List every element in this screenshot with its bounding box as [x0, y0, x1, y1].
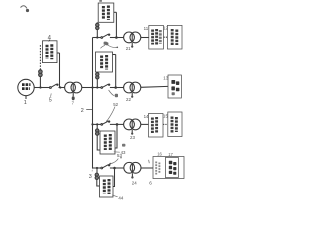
label 42 (above box B): [105, 42, 108, 45]
label 2 tick: [86, 109, 92, 111]
label 44 leader: [112, 195, 117, 197]
transformer TA winding 1: [124, 32, 135, 43]
transformer TC winding 2: [130, 119, 141, 130]
wire: transformer TA to load box A1: [141, 37, 149, 39]
svg-text:24: 24: [132, 181, 137, 186]
wire: breaker BB to box B: [96, 71, 98, 74]
transformer TC core line: [131, 120, 133, 128]
label 5 tick: [50, 93, 53, 96]
wire: source to switch S0: [34, 87, 50, 89]
label 4 tick: [49, 40, 50, 42]
transformer TA winding 2: [130, 32, 141, 43]
wire: breaker B0 to box L (dashed): [39, 45, 41, 70]
transformer TA tap arrowhead: [131, 46, 133, 48]
transformer TD winding 2: [130, 162, 141, 173]
switch SC contact b: [108, 120, 110, 122]
switch SC contact a: [101, 124, 103, 126]
leader curve for label 42: [101, 45, 106, 48]
transformer TA core line: [131, 33, 133, 41]
node JB1: [96, 86, 98, 88]
control box C: [100, 131, 115, 154]
transformer TD core line: [131, 164, 133, 172]
switch SC blade: [103, 121, 109, 124]
label 43 (right of box C): [122, 144, 125, 147]
switch SB blade: [103, 84, 109, 87]
control box B: [96, 52, 113, 72]
wire: feeder D from bus corner: [93, 167, 102, 169]
load box C1 text: [152, 117, 156, 134]
svg-text:44: 44: [118, 195, 123, 200]
svg-text:53: 53: [117, 153, 122, 158]
wire: stub to box L right edge: [57, 52, 60, 54]
label 51a (below switch SA): [104, 42, 107, 45]
load box C2: [168, 112, 182, 137]
breaker BD: [95, 173, 98, 176]
label 43b leader: [114, 151, 120, 153]
box L text: [47, 44, 52, 59]
reference mark 100 (top-left curved leader): [21, 6, 30, 12]
node JC1: [96, 123, 98, 125]
node JD2: [113, 167, 116, 170]
svg-text:7: 7: [72, 100, 75, 105]
switch S0 contact a: [50, 87, 52, 89]
switch SB contact b: [108, 84, 110, 86]
wire: breaker BD down and stub to box D: [97, 180, 100, 187]
label 9 tick (left of load group D): [148, 160, 151, 163]
box C text: [105, 134, 110, 151]
transformer TD tap lead: [131, 173, 133, 176]
load group D left text: [156, 162, 159, 175]
control box L: [43, 41, 58, 63]
switch SA contact b: [108, 34, 110, 36]
svg-text:11: 11: [144, 26, 149, 31]
switch SB contact a: [101, 87, 103, 89]
svg-text:6: 6: [149, 180, 152, 185]
wire: JB1 up to breaker BB: [96, 79, 98, 88]
load box B1 text: [171, 80, 179, 95]
breaker BC: [96, 129, 99, 132]
leader curve for label 51a: [107, 44, 117, 47]
wire: switch SB to transformer TB: [110, 87, 124, 89]
control box A: [98, 3, 114, 22]
node JB2: [114, 86, 117, 89]
switch SA contact a: [101, 37, 103, 39]
load box C1: [149, 114, 164, 138]
transformer T0 tap arrowhead: [72, 96, 75, 100]
transformer TB core line: [131, 84, 133, 92]
switch SA blade: [103, 34, 109, 37]
switch S0 blade: [51, 84, 57, 87]
wire: switch SD to transformer TD: [110, 167, 124, 169]
svg-text:1: 1: [24, 100, 27, 106]
load box A1 text: [153, 29, 161, 45]
node JC2: [116, 123, 119, 126]
transformer TB tap lead: [131, 93, 133, 96]
wire: dashed link box C1 to box C2: [163, 123, 168, 125]
switch S0 contact b: [56, 84, 58, 86]
transformer TC tap arrowhead: [131, 133, 133, 135]
load group D outer box: [153, 157, 184, 179]
load box D1 text: [169, 161, 177, 175]
node JA2: [115, 36, 118, 39]
load box D1 (inner): [165, 158, 178, 178]
wire: transformer T0 to bus: [82, 87, 93, 89]
transformer TB winding 1: [124, 82, 135, 93]
svg-text:21: 21: [126, 46, 131, 51]
transformer TA tap lead: [131, 43, 133, 46]
leader curve for label 53: [111, 159, 119, 164]
wire: breaker BA to box A: [96, 21, 98, 24]
wire: dashed link box A1 to box A2: [164, 36, 168, 38]
wire: tap J1 up to breaker B0: [39, 77, 41, 88]
wire: transformer TC to load box C1: [141, 123, 149, 125]
wire: box B right stub to bypass: [113, 54, 116, 56]
label 3 tick: [91, 168, 94, 172]
wire: box A right stub to bypass: [114, 11, 117, 13]
transformer T0 winding 1: [65, 82, 76, 93]
control box D: [100, 176, 114, 197]
node JB0 (bus crossing): [91, 86, 93, 88]
switch SD contact a: [101, 167, 103, 169]
wire: breaker BC down and stub to box C: [97, 135, 100, 150]
wire: JA1 up to breaker BA: [96, 30, 98, 38]
wire: bypass down to feeder B: [115, 55, 117, 88]
transformer TB winding 2: [130, 82, 141, 93]
box B text: [102, 55, 107, 70]
transformer TB tap arrowhead: [131, 96, 133, 98]
svg-text:22: 22: [126, 97, 131, 102]
wire: J2 to transformer T0: [59, 87, 65, 89]
wire: switch SA to transformer TA: [110, 37, 124, 39]
power source G1 (utility grid circle): [18, 79, 34, 95]
svg-text:2: 2: [81, 108, 84, 114]
wire: feeder A from bus: [93, 37, 102, 39]
transformer TD tap arrowhead: [131, 176, 133, 178]
load box C2 text: [172, 117, 176, 133]
wire: JD1 down to breaker BD: [96, 168, 98, 173]
label 1 leader: [25, 96, 27, 99]
wire: transformer TB to load box B1: [141, 85, 168, 88]
svg-text:17: 17: [168, 152, 173, 157]
svg-text:3: 3: [89, 174, 92, 180]
svg-text:52: 52: [113, 102, 118, 107]
breaker BB: [96, 76, 99, 79]
switch SD contact b: [108, 164, 110, 166]
wire: bypass from feeder C down to box C right stub: [115, 124, 117, 148]
svg-text:5: 5: [49, 98, 52, 104]
box A text: [103, 6, 108, 21]
breaker BA: [96, 26, 99, 29]
node J1 (tap to box L): [39, 86, 41, 88]
label 41 (above box A): [99, 0, 102, 2]
load box A2: [167, 25, 182, 49]
wire: feeder C from bus: [93, 123, 102, 125]
transformer TD winding 1: [124, 162, 135, 173]
transformer T0 winding 2: [71, 82, 82, 93]
wire: J2 up to box L right stub: [59, 53, 61, 88]
breaker B0 (two-circle disconnector): [39, 73, 43, 77]
leader curve for label 52: [107, 107, 115, 121]
transformer T0 core line: [72, 84, 74, 92]
wire: feeder B from bus: [93, 87, 102, 89]
load box A1: [149, 26, 164, 50]
box D text: [104, 179, 109, 194]
svg-text:23: 23: [130, 135, 135, 140]
wire: JC1 down to breaker BC: [96, 124, 98, 128]
load box A2 text: [172, 29, 177, 45]
transformer TC tap lead: [131, 130, 133, 133]
transformer T0 tap lead: [72, 93, 74, 97]
load box B1: [168, 75, 181, 98]
svg-text:16: 16: [157, 152, 162, 157]
wire: bypass down to feeder A: [115, 12, 117, 37]
node JC0 (bus junction): [91, 123, 93, 125]
power source G1 text: [22, 85, 31, 89]
node JD1: [96, 167, 98, 169]
label 51b (below switch SB): [115, 94, 118, 97]
wire: switch SC to transformer TC: [110, 123, 124, 125]
node JA1: [96, 36, 98, 38]
wire: bypass from feeder D down to box D right stub: [113, 168, 115, 187]
transformer TC winding 1: [124, 119, 135, 130]
switch SD blade: [103, 165, 109, 168]
bus 2 (main vertical bus): [92, 38, 94, 169]
node J2 (bypass junction): [59, 86, 61, 88]
leader curve for label 51b: [109, 90, 115, 96]
wire: transformer TD to load group D: [141, 167, 153, 169]
